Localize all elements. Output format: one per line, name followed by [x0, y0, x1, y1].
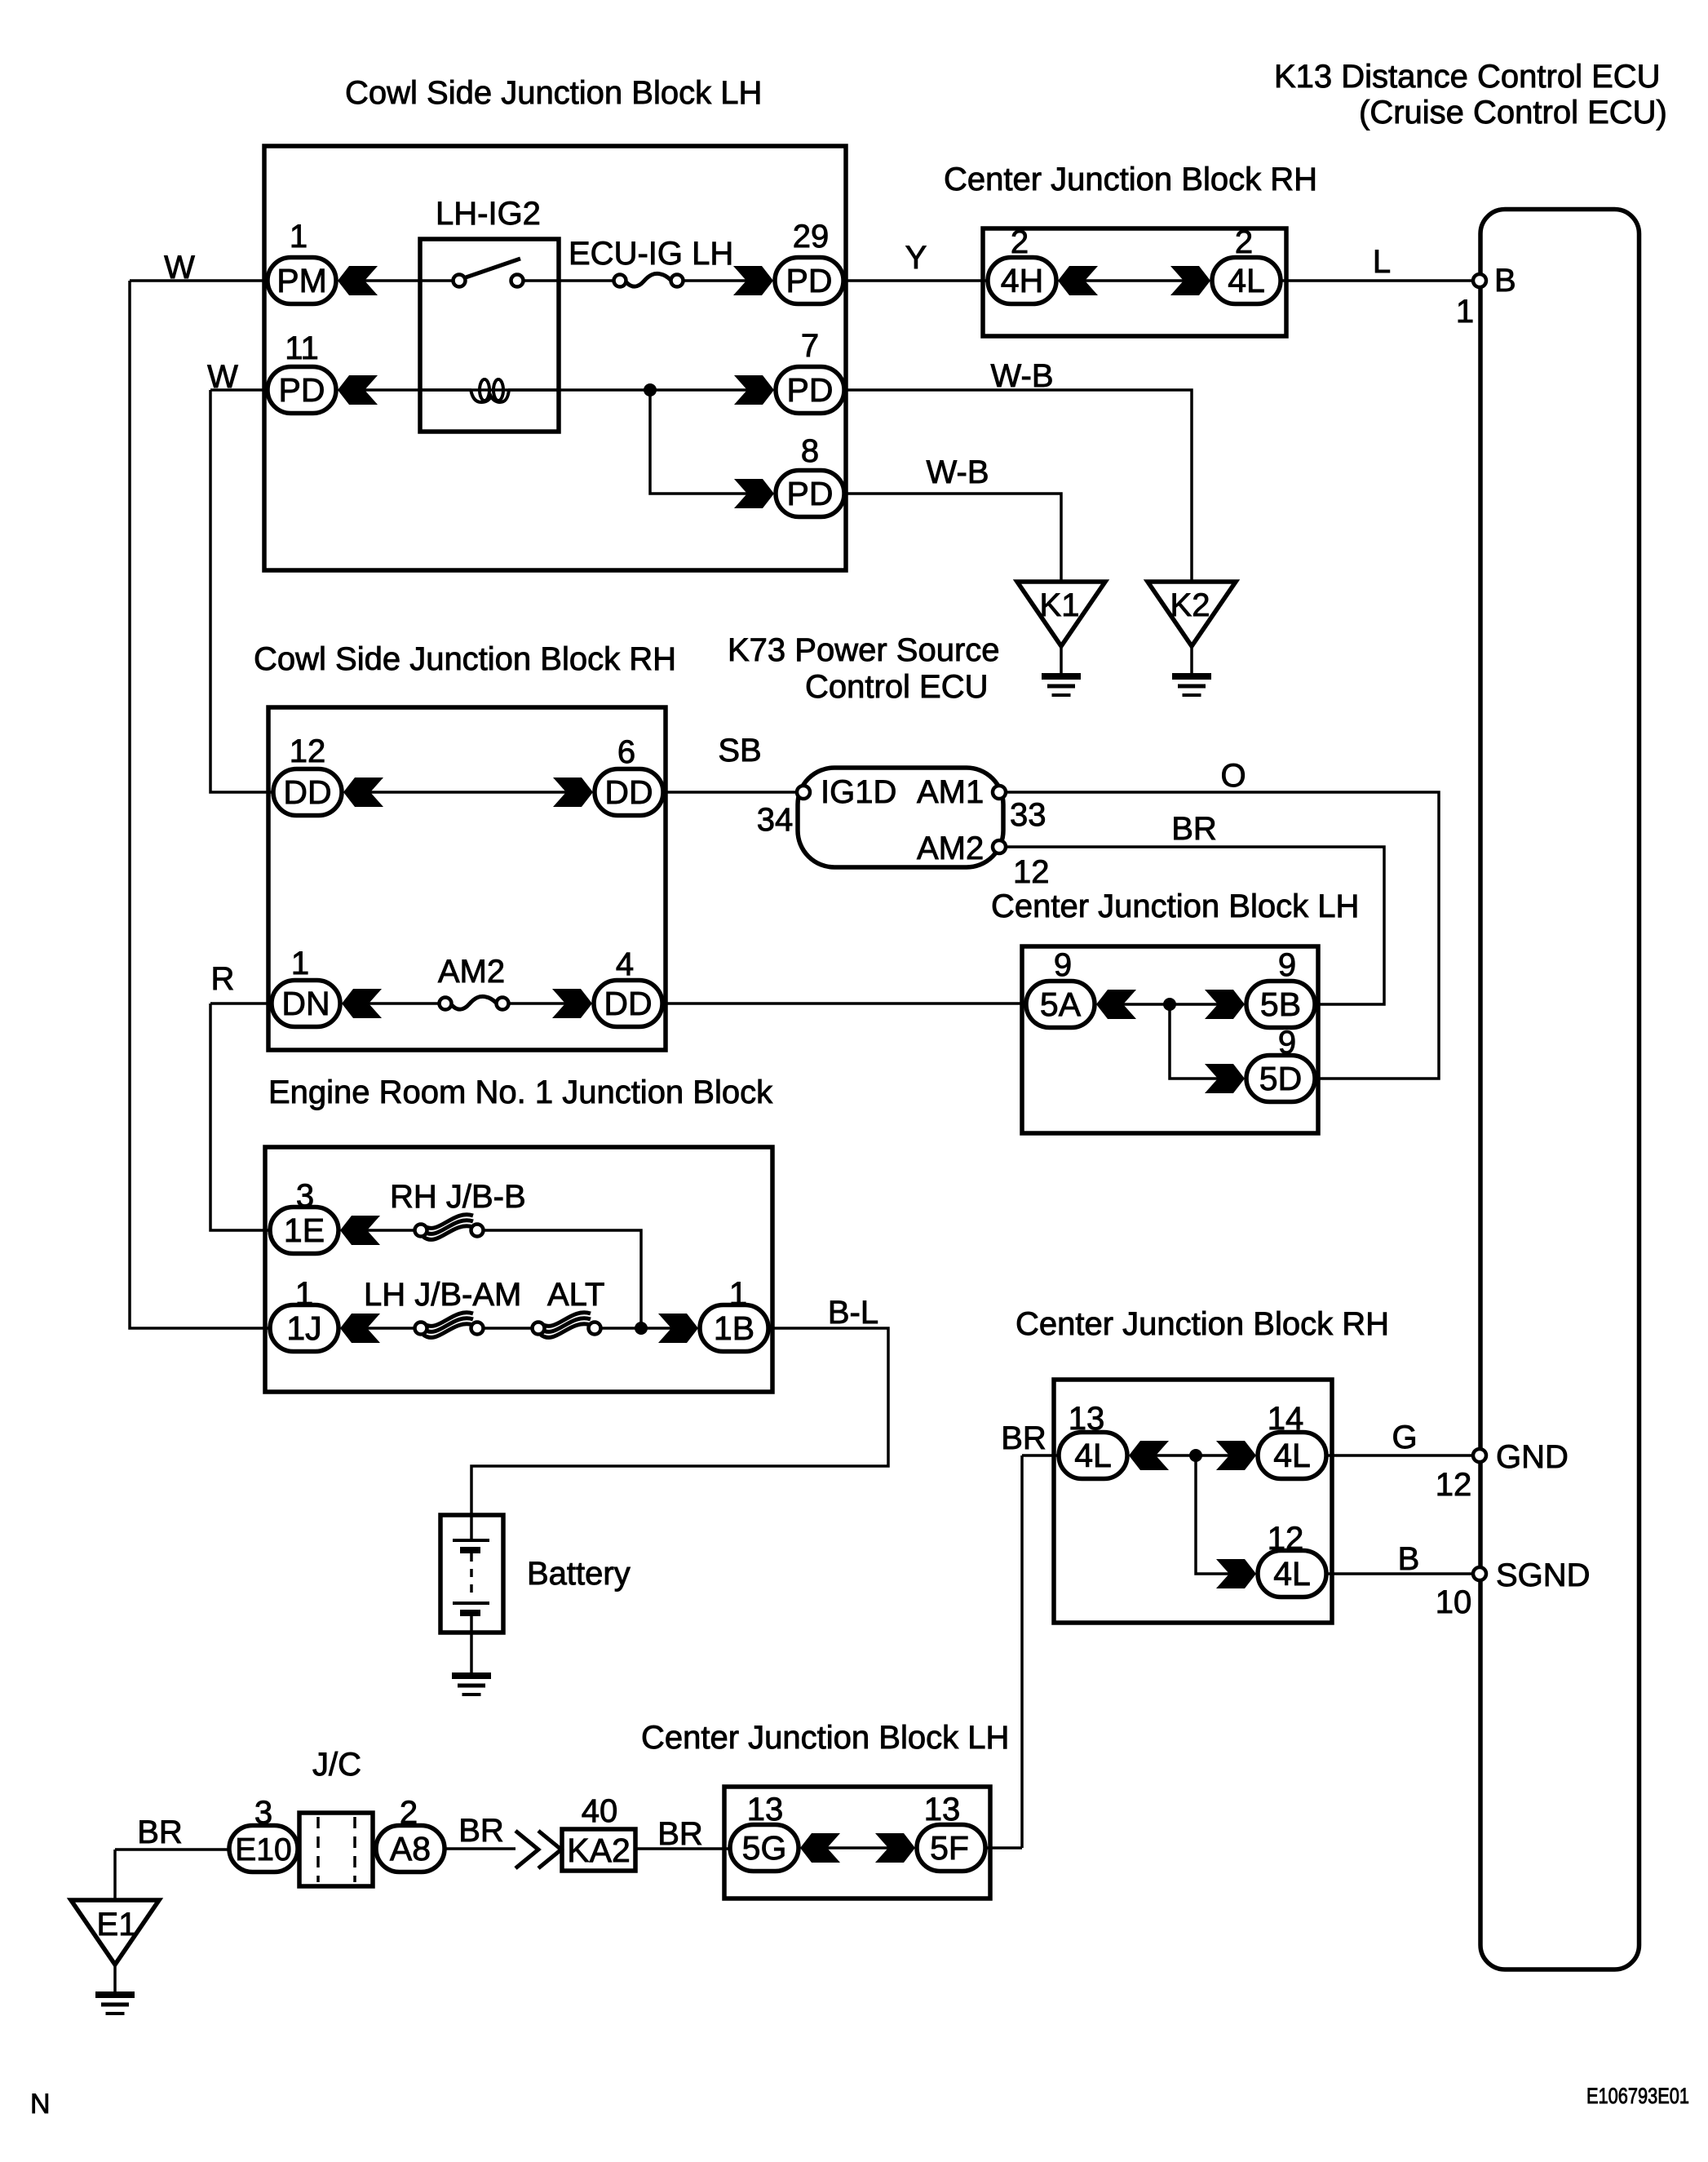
- svg-text:IG1D: IG1D: [821, 774, 896, 810]
- svg-text:4H: 4H: [1001, 262, 1043, 299]
- svg-text:ALT: ALT: [547, 1277, 604, 1313]
- svg-text:RH J/B-B: RH J/B-B: [390, 1179, 526, 1215]
- svg-text:A8: A8: [390, 1830, 431, 1867]
- svg-text:1J: 1J: [286, 1309, 321, 1347]
- svg-text:1: 1: [291, 946, 309, 981]
- svg-text:4L: 4L: [1228, 262, 1265, 299]
- svg-text:1E: 1E: [284, 1212, 325, 1249]
- svg-text:9: 9: [1054, 947, 1072, 983]
- svg-text:Cowl Side Junction Block RH: Cowl Side Junction Block RH: [254, 641, 676, 677]
- svg-text:10: 10: [1436, 1584, 1472, 1620]
- svg-text:4L: 4L: [1273, 1555, 1311, 1593]
- svg-text:K13 Distance Control ECU: K13 Distance Control ECU: [1274, 59, 1661, 95]
- svg-text:5D: 5D: [1259, 1060, 1302, 1097]
- svg-text:B: B: [1494, 263, 1516, 299]
- svg-text:7: 7: [801, 328, 819, 364]
- svg-text:14: 14: [1268, 1401, 1304, 1437]
- svg-text:AM1: AM1: [917, 774, 984, 810]
- svg-text:9: 9: [1278, 947, 1296, 983]
- svg-text:PD: PD: [787, 475, 834, 512]
- svg-text:ECU-IG LH: ECU-IG LH: [569, 236, 733, 272]
- svg-text:E10: E10: [235, 1832, 291, 1867]
- svg-text:5F: 5F: [930, 1829, 969, 1867]
- svg-text:9: 9: [1278, 1025, 1296, 1061]
- svg-text:12: 12: [1013, 854, 1050, 890]
- svg-text:BR: BR: [458, 1813, 504, 1849]
- svg-text:Center Junction Block LH: Center Junction Block LH: [991, 888, 1359, 924]
- svg-text:11: 11: [285, 330, 319, 366]
- svg-text:DD: DD: [604, 773, 653, 811]
- svg-text:DD: DD: [604, 985, 652, 1022]
- svg-text:1: 1: [1456, 294, 1474, 330]
- svg-text:B-L: B-L: [828, 1295, 878, 1331]
- svg-text:BR: BR: [1171, 811, 1217, 847]
- svg-text:2: 2: [1235, 224, 1253, 260]
- svg-text:AM2: AM2: [438, 954, 505, 990]
- svg-text:PD: PD: [786, 262, 833, 299]
- svg-text:40: 40: [582, 1793, 618, 1829]
- svg-text:29: 29: [793, 219, 830, 255]
- svg-text:1B: 1B: [714, 1309, 754, 1347]
- svg-text:PD: PD: [279, 371, 325, 409]
- svg-text:5A: 5A: [1040, 986, 1082, 1023]
- svg-text:8: 8: [801, 433, 819, 469]
- svg-text:AM2: AM2: [917, 831, 984, 866]
- svg-text:B: B: [1398, 1541, 1420, 1577]
- svg-text:LH J/B-AM: LH J/B-AM: [364, 1277, 521, 1313]
- svg-text:6: 6: [617, 734, 635, 770]
- svg-text:4L: 4L: [1273, 1437, 1311, 1474]
- svg-text:W-B: W-B: [990, 358, 1053, 394]
- svg-text:BR: BR: [137, 1814, 183, 1850]
- svg-text:LH-IG2: LH-IG2: [436, 196, 541, 232]
- svg-text:Cowl Side Junction Block LH: Cowl Side Junction Block LH: [345, 75, 762, 111]
- svg-text:J/C: J/C: [312, 1747, 361, 1783]
- svg-text:Center Junction Block RH: Center Junction Block RH: [1016, 1306, 1389, 1342]
- svg-text:N: N: [30, 2089, 51, 2120]
- svg-text:13: 13: [1069, 1401, 1105, 1437]
- svg-text:3: 3: [296, 1178, 314, 1214]
- svg-text:2: 2: [1011, 224, 1029, 260]
- svg-text:(Cruise Control ECU): (Cruise Control ECU): [1359, 95, 1667, 131]
- svg-text:1: 1: [290, 219, 308, 255]
- svg-text:1: 1: [729, 1276, 747, 1312]
- svg-text:BR: BR: [657, 1816, 703, 1852]
- svg-text:W: W: [164, 250, 195, 286]
- svg-text:DD: DD: [283, 773, 331, 811]
- svg-text:SGND: SGND: [1496, 1557, 1591, 1593]
- svg-text:O: O: [1220, 758, 1246, 794]
- svg-text:Center Junction Block RH: Center Junction Block RH: [944, 162, 1317, 197]
- svg-text:Control ECU: Control ECU: [805, 669, 989, 705]
- svg-text:2: 2: [400, 1795, 418, 1831]
- svg-text:1: 1: [295, 1276, 313, 1312]
- svg-text:13: 13: [924, 1792, 961, 1828]
- svg-text:W-B: W-B: [926, 454, 989, 490]
- svg-text:5G: 5G: [742, 1829, 787, 1867]
- svg-text:BR: BR: [1001, 1420, 1046, 1456]
- svg-text:DN: DN: [281, 985, 330, 1022]
- svg-text:K1: K1: [1040, 587, 1080, 623]
- svg-text:PM: PM: [277, 262, 327, 299]
- svg-text:L: L: [1373, 244, 1391, 280]
- svg-text:Y: Y: [905, 240, 927, 276]
- svg-text:E106793E01: E106793E01: [1586, 2084, 1689, 2108]
- svg-text:KA2: KA2: [567, 1832, 631, 1869]
- svg-text:G: G: [1392, 1420, 1417, 1455]
- svg-text:5B: 5B: [1260, 986, 1301, 1023]
- svg-text:12: 12: [1268, 1521, 1304, 1557]
- svg-text:33: 33: [1010, 797, 1046, 833]
- svg-text:Battery: Battery: [527, 1556, 631, 1592]
- svg-text:3: 3: [254, 1795, 272, 1831]
- svg-text:GND: GND: [1496, 1439, 1569, 1475]
- svg-text:34: 34: [757, 802, 794, 838]
- svg-text:12: 12: [1436, 1467, 1472, 1503]
- svg-text:K2: K2: [1170, 587, 1210, 623]
- svg-text:Center Junction Block LH: Center Junction Block LH: [641, 1720, 1009, 1756]
- svg-text:R: R: [211, 961, 235, 997]
- svg-text:13: 13: [747, 1792, 784, 1828]
- svg-text:W: W: [207, 359, 238, 395]
- svg-text:Engine Room No. 1 Junction Blo: Engine Room No. 1 Junction Block: [268, 1074, 773, 1110]
- svg-text:12: 12: [290, 733, 326, 769]
- svg-text:E1: E1: [97, 1907, 137, 1943]
- svg-text:SB: SB: [718, 733, 761, 769]
- svg-text:4L: 4L: [1074, 1437, 1112, 1474]
- svg-text:PD: PD: [787, 371, 834, 409]
- svg-text:4: 4: [616, 946, 634, 982]
- svg-text:K73 Power Source: K73 Power Source: [728, 632, 1000, 668]
